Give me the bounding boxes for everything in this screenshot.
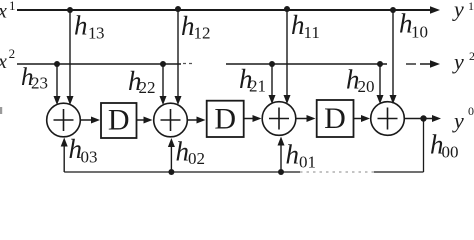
svg-text:x: x [0,51,7,73]
label coefficient h03 [69,134,98,167]
svg-text:3: 3 [96,23,105,42]
wire: h11 tap from x1 down to adder 3 [284,9,291,104]
svg-text:y: y [452,49,464,74]
scan artifact tick at left edge [0,107,2,114]
label coefficient h02 [176,137,206,169]
node: dot on feedback line below adder A2 [168,169,174,175]
svg-text:20: 20 [358,77,375,96]
node: tap dot on x1 line at adder 2 [175,6,181,12]
delay D2 box [207,101,244,137]
node: tap dot on x1 line at adder 3 [284,6,290,12]
wire: h03 feedback arrow up into adder A1 [61,138,68,173]
wire: delay D2 output to adder A3 [244,115,262,122]
label x2 input [0,46,15,73]
adder A1 (summing junction) [47,103,81,137]
label coefficient h12 [181,11,211,43]
arrow to y1 output [430,6,440,14]
adder A4 (summing junction) [371,102,405,136]
wire: h12 tap from x1 down to adder 2 [175,9,182,105]
svg-text:03: 03 [81,148,98,167]
svg-text:12: 12 [194,24,211,43]
svg-text:23: 23 [31,74,48,93]
svg-text:y: y [452,108,464,133]
label coefficient h22 [128,66,156,97]
label coefficient h11 [291,10,320,42]
wire: bottom feedback line solid left part [64,171,300,173]
svg-text:h: h [291,10,305,40]
wire: h23 tap from x2 down to adder 1 [54,64,61,105]
svg-text:h: h [181,11,195,41]
svg-text:h: h [74,11,88,41]
delay D3 box [317,100,354,137]
wire: x2 input bus segment 1 [17,63,181,65]
adder A2 (summing junction) [154,103,188,137]
label coefficient h21 [239,64,266,96]
wire: h10 tap from x1 down to adder 4 [390,10,397,104]
svg-text:1: 1 [9,0,16,13]
label y0 output [452,104,474,133]
label coefficient h13 [74,11,105,43]
svg-text:02: 02 [188,149,205,168]
wire: adder A3 output to delay D3 [296,115,316,122]
adder A3 (summing junction) [262,102,296,136]
node: tap dot on x2 line at adder 1 [54,61,60,67]
svg-text:00: 00 [442,143,459,162]
node: y0 output junction dot [420,115,426,121]
svg-text:h: h [286,140,300,170]
wire: h13 tap from x1 down to adder 1 [67,10,74,105]
node: tap dot on x2 line at adder 3 [269,61,275,67]
wire: bottom feedback line solid right part [374,171,424,173]
wire: h21 tap from x2 down to adder 3 [269,64,276,104]
node: dot on feedback line below adder A3 [278,169,284,175]
label x1 input [0,0,16,23]
svg-text:2: 2 [9,46,16,61]
svg-text:x: x [0,1,7,23]
wire: delay D3 output to adder A4 [354,115,371,122]
svg-text:10: 10 [411,23,428,42]
wire: adder A4 output to y0 node [405,118,424,120]
svg-text:D: D [324,102,346,135]
node: tap dot on x1 line at adder 1 [67,7,73,13]
svg-text:0: 0 [468,104,474,118]
wire: delay D1 output to adder A2 [137,117,153,124]
arrow to y2 output [420,63,434,65]
wire: x1 input bus (top horizontal line) [17,9,434,11]
label coefficient h00 [430,130,459,162]
label coefficient h10 [399,9,428,42]
node: tap dot on x2 line at adder 2 [160,61,166,67]
wire: h20 tap from x2 down to adder 4 [377,64,384,104]
wire: adder A2 output to delay D2 [188,117,206,124]
wire: h01 feedback arrow up into adder A3 [278,137,285,173]
svg-text:h: h [176,137,190,167]
label coefficient h01 [286,140,317,172]
svg-text:11: 11 [304,23,320,42]
wire: dashed lead to y2 arrow [406,63,416,65]
wire: adder A1 output to delay D1 [81,117,101,124]
node: tap dot on x1 line at adder 4 [390,7,396,13]
svg-text:22: 22 [139,78,156,97]
label y2 output [452,49,474,74]
delay D1 box [101,103,137,138]
wire: x2 input bus segment 2 [226,63,387,65]
svg-text:1: 1 [258,77,267,96]
arrow to y0 output [426,115,441,122]
svg-text:01: 01 [299,153,316,172]
label y1 output [452,0,474,22]
wire: h22 tap from x2 down to adder 2 [160,64,167,105]
label coefficient h20 [346,65,375,97]
svg-text:2: 2 [469,49,474,63]
wire: h02 feedback arrow up into adder A2 [168,138,175,172]
label coefficient h23 [21,64,48,93]
svg-text:D: D [108,104,130,137]
wire: y0 feedback down right side [423,119,425,173]
wire: x2 bus faded dashes [183,63,195,65]
svg-text:2: 2 [249,77,258,96]
svg-text:1: 1 [468,0,474,13]
node: tap dot on x2 line at adder 4 [377,61,383,67]
svg-text:y: y [452,0,464,22]
wire: bottom feedback line faded middle part [300,171,374,173]
svg-text:D: D [214,103,236,136]
